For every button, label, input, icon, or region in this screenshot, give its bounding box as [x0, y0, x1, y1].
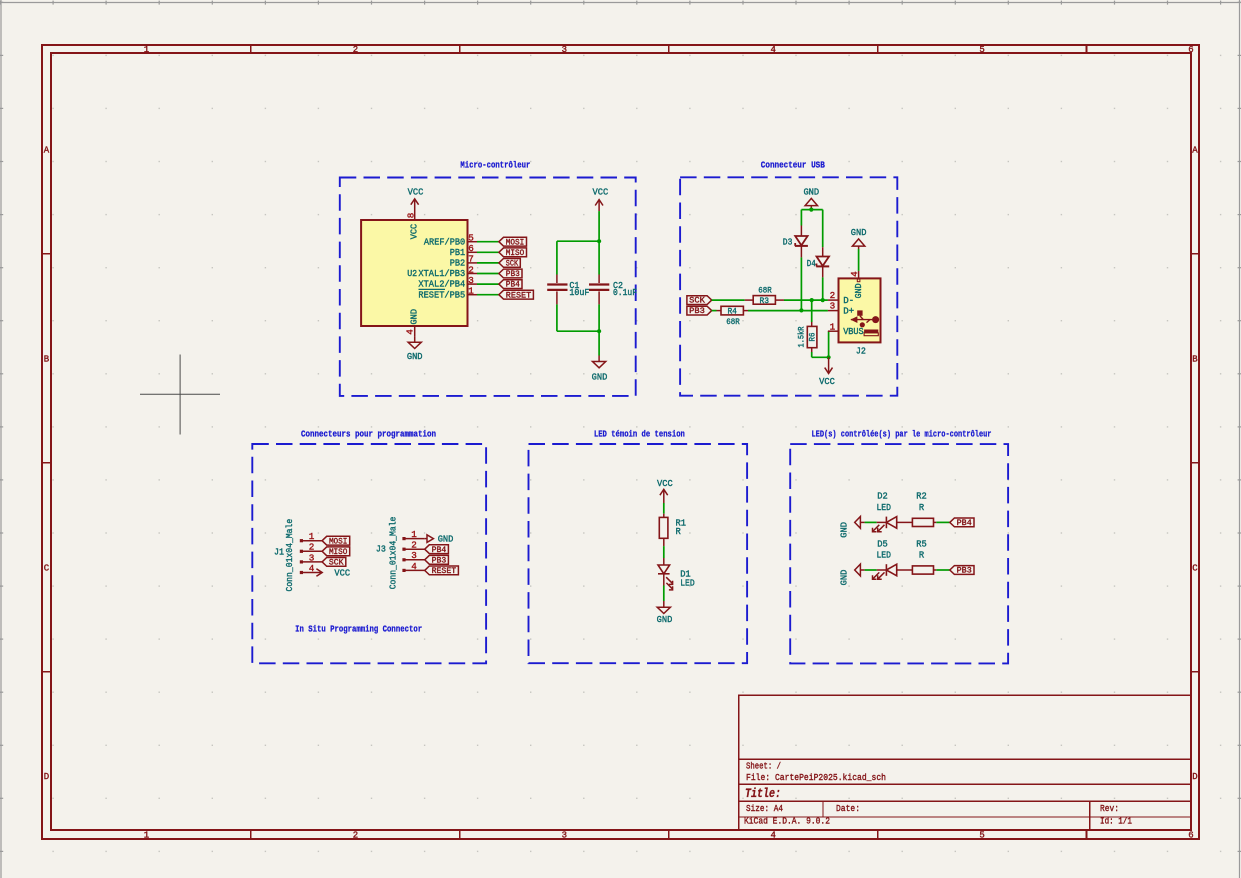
svg-text:D: D [44, 772, 49, 782]
svg-text:1: 1 [144, 45, 149, 55]
svg-text:R2: R2 [916, 491, 927, 502]
svg-text:VCC: VCC [819, 376, 835, 387]
global label PB4 j3 [425, 545, 449, 554]
resistor R1 [663, 514, 665, 518]
ground GND j3 pin1 [427, 535, 433, 543]
led D2 [877, 521, 887, 523]
svg-text:1: 1 [144, 830, 149, 840]
wire U2 to label SCK [477, 262, 499, 264]
svg-text:PB3: PB3 [957, 566, 972, 576]
svg-text:Connecteur USB: Connecteur USB [761, 160, 825, 171]
svg-text:A: A [1192, 146, 1198, 156]
svg-text:4: 4 [770, 45, 775, 55]
svg-text:4: 4 [849, 271, 860, 277]
svg-text:GND: GND [657, 614, 673, 625]
svg-text:5: 5 [468, 233, 474, 244]
power VCC above U2 [414, 199, 416, 209]
note box Micro-contrôleur [340, 178, 636, 396]
svg-text:MISO: MISO [506, 248, 525, 258]
svg-text:68R: 68R [726, 317, 740, 327]
svg-text:RESET/PB5: RESET/PB5 [418, 289, 465, 300]
wire GND to D5 [865, 569, 877, 571]
junction D3 D+ [799, 308, 803, 312]
ground GND above J2 [852, 239, 864, 246]
svg-text:C: C [1192, 563, 1198, 573]
svg-text:4: 4 [770, 830, 775, 840]
svg-text:1: 1 [468, 286, 474, 297]
svg-text:Rev:: Rev: [1100, 803, 1119, 814]
usb icon in J2 [850, 310, 879, 335]
ic U2 RESET overbar [419, 288, 446, 290]
wire D- to R6 [811, 300, 813, 322]
svg-text:3: 3 [830, 300, 836, 311]
svg-text:1: 1 [411, 529, 417, 540]
wire R3 to J2 pin 2 D- line [784, 299, 828, 301]
svg-text:File: CartePeiP2025.kicad_sch: File: CartePeiP2025.kicad_sch [746, 772, 886, 783]
svg-text:GND: GND [592, 372, 608, 383]
global label SCK [687, 296, 712, 305]
svg-text:PB4: PB4 [432, 545, 447, 555]
svg-text:4: 4 [411, 561, 417, 572]
power VCC led section [663, 489, 665, 503]
svg-text:VCC: VCC [409, 223, 420, 239]
svg-text:B: B [1192, 354, 1198, 364]
svg-text:1: 1 [309, 531, 315, 542]
ic U2 pin 6 PB1 [468, 251, 478, 253]
svg-text:MOSI: MOSI [506, 237, 525, 247]
wire U2 to label MOSI [477, 241, 499, 243]
svg-text:Connecteurs pour programmation: Connecteurs pour programmation [301, 428, 436, 439]
wire junction to C1 top [557, 240, 599, 242]
global label PB3 j3 [425, 555, 449, 564]
svg-text:PB4: PB4 [506, 280, 520, 290]
wire VCC to junction [598, 211, 600, 241]
svg-text:2: 2 [468, 264, 474, 275]
wire U2 to label PB3 [477, 273, 499, 275]
svg-text:U2: U2 [407, 268, 417, 279]
global label PB4 [499, 280, 522, 289]
svg-text:D-: D- [843, 295, 854, 306]
svg-text:2: 2 [411, 540, 417, 551]
svg-text:R5: R5 [916, 538, 927, 549]
global label PB4 led row [950, 518, 974, 527]
svg-text:5: 5 [979, 45, 984, 55]
svg-text:D+: D+ [843, 306, 854, 317]
connector J1 pin 4 [300, 571, 303, 574]
svg-text:D5: D5 [877, 538, 888, 549]
svg-text:GND: GND [853, 283, 864, 298]
svg-text:2: 2 [830, 290, 836, 301]
global label MISO j1 [322, 547, 350, 556]
svg-text:MOSI: MOSI [329, 536, 348, 546]
power VCC above C2 [598, 200, 600, 212]
global label MOSI j1 [322, 536, 350, 545]
svg-text:Size: A4: Size: A4 [746, 803, 783, 814]
svg-text:MISO: MISO [329, 547, 348, 557]
svg-text:In Situ Programming Connector: In Situ Programming Connector [295, 623, 422, 634]
svg-text:RESET: RESET [506, 290, 531, 300]
svg-text:Id: 1/1: Id: 1/1 [1100, 816, 1132, 827]
connector J2 pin 3 D+ [828, 310, 839, 312]
svg-text:VCC: VCC [334, 567, 350, 578]
junction VCC node [597, 239, 601, 243]
svg-text:GND: GND [407, 351, 423, 362]
svg-text:Conn_01x04_Male: Conn_01x04_Male [284, 519, 295, 592]
junction R6 D- [810, 298, 814, 302]
svg-text:PB1: PB1 [450, 247, 466, 258]
connector J2 pin 4 GND [858, 271, 860, 279]
svg-text:J2: J2 [856, 346, 866, 357]
ic U2 pin 2 XTAL1/PB3 [468, 273, 478, 275]
ic U2 pin 5 AREF/PB0 [468, 241, 478, 243]
svg-text:4: 4 [309, 563, 315, 574]
svg-text:Title:: Title: [745, 787, 781, 801]
svg-text:SCK: SCK [506, 259, 519, 269]
svg-text:KiCad E.D.A. 9.0.2: KiCad E.D.A. 9.0.2 [744, 816, 830, 827]
svg-text:RESET: RESET [432, 566, 457, 576]
wire PB3 to R4 [712, 310, 717, 312]
ground GND top of USB section [805, 198, 817, 205]
svg-text:GND: GND [409, 309, 420, 325]
ground GND D5 row [855, 564, 861, 576]
ic U2 pin 3 XTAL2/PB4 [468, 283, 478, 285]
svg-text:AREF/PB0: AREF/PB0 [424, 236, 465, 247]
wire GND to D3 [800, 210, 802, 226]
ic U2 pin 1 RESET/PB5 [468, 294, 478, 296]
svg-text:R: R [919, 549, 925, 560]
svg-text:LED: LED [680, 577, 695, 588]
svg-text:GND: GND [838, 569, 849, 585]
svg-text:VCC: VCC [408, 187, 424, 198]
svg-text:GND: GND [851, 227, 867, 238]
capacitor C2 [598, 241, 600, 274]
svg-text:LED: LED [876, 549, 891, 560]
svg-text:2: 2 [309, 542, 315, 553]
svg-text:R6: R6 [808, 332, 817, 341]
svg-text:PB3: PB3 [506, 269, 520, 279]
wire VCC to R1 [663, 503, 665, 514]
svg-text:6: 6 [468, 243, 474, 254]
svg-text:LED témoin de tension: LED témoin de tension [594, 429, 685, 440]
svg-text:PB2: PB2 [450, 258, 466, 269]
connector J2 pin 1 VBUS [828, 330, 839, 332]
svg-text:VBUS: VBUS [843, 326, 864, 337]
connector J3 pin 1 [402, 537, 405, 540]
svg-text:3: 3 [562, 45, 567, 55]
svg-text:LED(s) contrôlée(s) par le mic: LED(s) contrôlée(s) par le micro-contrôl… [812, 429, 992, 440]
resistor R2 [912, 518, 933, 526]
wire GND tee [801, 209, 822, 211]
resistor R4 [717, 310, 722, 312]
wire R4 to J2 pin 3 D+ line [748, 310, 828, 312]
led D5 [877, 569, 887, 571]
diode D4 [822, 247, 824, 256]
svg-text:SCK: SCK [689, 296, 706, 306]
global label RESET j3 [425, 566, 459, 575]
global label SCK [499, 259, 520, 268]
power VCC below J2 [828, 357, 830, 373]
global label RESET [499, 290, 534, 299]
power VCC j1 pin4 [316, 569, 322, 577]
svg-text:5: 5 [979, 830, 984, 840]
resistor R3 [745, 299, 754, 301]
note box Connecteurs pour programmation [252, 444, 486, 663]
svg-text:7: 7 [468, 254, 474, 265]
wire R1 to D1 [663, 546, 665, 558]
ic U2 body [361, 220, 467, 326]
junction GND tee [809, 208, 813, 212]
svg-text:PB3: PB3 [689, 306, 705, 316]
svg-text:PB3: PB3 [432, 555, 447, 565]
connector J3 pin 2 [402, 548, 405, 551]
svg-text:VCC: VCC [593, 187, 609, 198]
wire D1 to GND [663, 586, 665, 602]
junction GND node [597, 329, 601, 333]
connector J3 pin 3 [402, 558, 405, 561]
global label PB3 led row [950, 566, 974, 575]
svg-text:R: R [919, 502, 925, 513]
note box LED témoin de tension [529, 444, 748, 663]
wire U2 to label MISO [477, 251, 499, 253]
svg-text:GND: GND [838, 522, 849, 538]
svg-text:D2: D2 [877, 491, 888, 502]
resistor R6 [811, 322, 813, 326]
diode D3 [800, 226, 802, 237]
svg-text:LED: LED [876, 502, 891, 513]
svg-text:1: 1 [830, 321, 836, 332]
connector J1 pin 1 [300, 539, 303, 542]
svg-text:2: 2 [353, 45, 358, 55]
svg-text:Sheet: /: Sheet: / [746, 761, 781, 772]
global label MISO [499, 248, 527, 257]
svg-text:3: 3 [468, 275, 474, 286]
note box Connecteur USB [680, 177, 897, 395]
svg-text:6: 6 [1188, 830, 1193, 840]
svg-text:D4: D4 [807, 258, 816, 269]
wire SCK to R3 [712, 299, 745, 301]
svg-text:D: D [1192, 772, 1197, 782]
junction D4 D- [821, 298, 825, 302]
svg-text:GND: GND [438, 533, 454, 544]
svg-text:XTAL2/PB4: XTAL2/PB4 [418, 279, 465, 290]
ground GND below capacitors [598, 356, 600, 362]
ground GND D2 row [855, 517, 861, 529]
connector J3 pin 4 [402, 569, 405, 572]
svg-text:4: 4 [405, 329, 416, 335]
resistor R5 [912, 566, 933, 574]
led D1 [663, 558, 665, 565]
capacitor C1 [556, 275, 558, 284]
wire U2 to label RESET [477, 294, 499, 296]
svg-text:A: A [44, 146, 50, 156]
junction VCC node usb [827, 355, 831, 359]
svg-text:8: 8 [405, 213, 416, 219]
wire C1 bottom to junction [556, 304, 558, 331]
svg-text:1.5kR: 1.5kR [798, 326, 807, 347]
wire D4 to D- line [822, 277, 824, 300]
svg-text:68R: 68R [758, 285, 772, 295]
svg-text:B: B [44, 354, 50, 364]
global label SCK j1 [322, 558, 346, 567]
svg-text:Micro-contrôleur: Micro-contrôleur [460, 159, 530, 170]
svg-text:GND: GND [803, 187, 819, 198]
global label PB3 [499, 269, 522, 278]
connector J1 pin 3 [300, 560, 303, 563]
wire junction to GND [598, 331, 600, 355]
svg-text:PB4: PB4 [957, 518, 972, 528]
svg-text:10uF: 10uF [569, 287, 589, 298]
note box LED(s) contrôlée(s) [790, 444, 1008, 663]
svg-text:3: 3 [309, 552, 315, 563]
svg-text:Date:: Date: [836, 803, 860, 814]
svg-text:J1: J1 [274, 547, 284, 558]
svg-text:Conn_01x04_Male: Conn_01x04_Male [387, 517, 398, 590]
global label MOSI [499, 237, 527, 246]
wire R6 to VCC node [811, 352, 813, 357]
wire R2 to label PB4 [936, 521, 950, 523]
wire GND to D4 [822, 210, 824, 248]
svg-text:J3: J3 [376, 544, 386, 555]
svg-text:SCK: SCK [329, 558, 345, 568]
svg-text:6: 6 [1188, 45, 1193, 55]
svg-text:VCC: VCC [657, 478, 673, 489]
wire GND to J2 pin 4 [858, 249, 860, 271]
svg-text:D3: D3 [783, 237, 793, 248]
svg-text:2: 2 [353, 830, 358, 840]
svg-text:3: 3 [411, 550, 417, 561]
ground GND below U2 [414, 337, 416, 342]
svg-text:0.1uF: 0.1uF [613, 287, 637, 298]
svg-text:3: 3 [562, 830, 567, 840]
svg-text:R: R [676, 526, 682, 537]
svg-text:R4: R4 [727, 307, 737, 316]
connector J2 body [839, 278, 881, 342]
wire J2 pin1 to VCC node [828, 331, 830, 357]
wire GND to D2 [865, 521, 877, 523]
connector J2 pin 2 D- [828, 299, 839, 301]
svg-text:C: C [44, 563, 50, 573]
ic U2 pin 8 VCC [414, 209, 416, 220]
wire C2 bottom [598, 304, 600, 331]
wire R5 to label PB3 [936, 569, 950, 571]
global label PB3 usb [687, 306, 712, 315]
svg-text:XTAL1/PB3: XTAL1/PB3 [418, 268, 465, 279]
svg-text:R3: R3 [760, 297, 770, 306]
ground GND led section [663, 601, 665, 607]
ic U2 pin 4 GND [414, 326, 416, 337]
wire U2 to label PB4 [477, 283, 499, 285]
wire D3 to D+ line [800, 257, 802, 310]
ic U2 pin 7 PB2 [468, 262, 478, 264]
connector J1 pin 2 [300, 550, 303, 553]
